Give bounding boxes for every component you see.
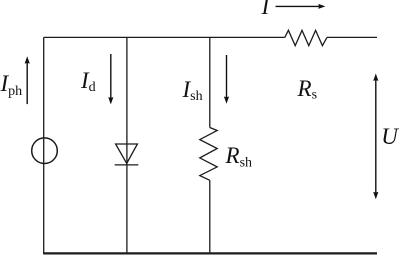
diode D triangle bbox=[116, 144, 138, 163]
resistor R_sh zigzag bbox=[200, 128, 217, 181]
current source circle bbox=[32, 138, 58, 164]
wire shunt branch lower bbox=[209, 180, 211, 253]
svg-text:U: U bbox=[381, 124, 399, 149]
svg-text:Rs: Rs bbox=[297, 76, 318, 103]
svg-text:Id: Id bbox=[80, 68, 96, 95]
wire top left segment bbox=[44, 36, 285, 38]
arrow U (double) bbox=[375, 80, 377, 194]
diode cathode bar bbox=[115, 164, 139, 166]
arrow I_sh (down) bbox=[226, 55, 228, 97]
svg-text:I: I bbox=[261, 0, 271, 19]
wire diode branch bbox=[126, 37, 128, 253]
wire left vertical bbox=[43, 37, 45, 253]
svg-text:Ish: Ish bbox=[182, 77, 203, 104]
svg-text:Rsh: Rsh bbox=[225, 143, 253, 170]
arrow I (right) bbox=[276, 5, 320, 7]
arrow I_ph (up) bbox=[26, 63, 28, 105]
resistor R_s zigzag bbox=[285, 30, 327, 45]
wire bottom bbox=[43, 252, 377, 254]
wire shunt branch upper bbox=[209, 37, 211, 127]
arrow I_d (down) bbox=[110, 54, 112, 98]
wire top right segment bbox=[327, 36, 377, 38]
svg-text:Iph: Iph bbox=[0, 71, 22, 99]
